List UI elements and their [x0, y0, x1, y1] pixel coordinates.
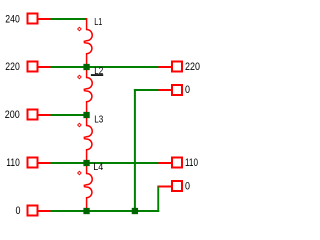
terminal left 200 — [28, 110, 38, 120]
wire 110 terminal to node C — [51, 162, 87, 164]
pin stub left 220 — [39, 66, 51, 68]
terminal 240 — [28, 14, 38, 24]
svg-text:110: 110 — [185, 157, 198, 169]
terminal left 110 — [28, 158, 38, 168]
svg-text:L3: L3 — [94, 113, 103, 125]
junction riser 1 on bottom wire — [132, 208, 138, 214]
terminal left 0 — [28, 206, 38, 216]
inductor L4 — [84, 163, 92, 210]
svg-text:240: 240 — [5, 13, 20, 25]
terminal right 0 upper — [172, 85, 182, 95]
svg-text:0: 0 — [185, 84, 190, 96]
pin stub right 220 — [159, 66, 172, 68]
junction node B (200 tap) — [83, 112, 89, 118]
svg-text:200: 200 — [5, 109, 20, 121]
inductor L1 — [84, 18, 92, 67]
polarity dot L4 — [78, 171, 82, 175]
wire 200 terminal to node B — [51, 114, 87, 116]
svg-text:220: 220 — [5, 61, 20, 73]
terminal right 110 — [172, 158, 182, 168]
inductor L3 — [84, 115, 92, 163]
wire right 0 upper horizontal — [134, 89, 159, 91]
label L2 underline — [91, 74, 103, 76]
wire 0 terminal to node D — [51, 210, 87, 212]
svg-text:220: 220 — [185, 61, 200, 73]
pin stub right 0 upper — [159, 89, 172, 91]
junction node D (0 bottom) — [83, 208, 89, 214]
wire vertical riser 2 — [157, 186, 159, 213]
terminal right 220 — [172, 62, 182, 72]
wire node A to right 220 terminal — [87, 66, 159, 68]
inductor L2 — [84, 67, 92, 115]
polarity dot L3 — [78, 123, 82, 127]
junction node C (110 tap) — [83, 160, 89, 166]
polarity dot L2 — [78, 75, 82, 79]
svg-text:0: 0 — [185, 180, 190, 192]
pin stub right 0 lower — [159, 186, 172, 188]
terminal right 0 lower — [172, 181, 182, 191]
wire vertical riser 1 — [134, 89, 136, 212]
wire node C to right 110 terminal — [87, 162, 159, 164]
pin stub right 110 — [159, 162, 172, 164]
wire 240 terminal to L1 top — [51, 18, 87, 20]
wire node D to riser corner — [87, 210, 160, 212]
svg-text:L4: L4 — [93, 161, 103, 173]
terminal left 220 — [28, 62, 38, 72]
svg-text:L1: L1 — [94, 16, 102, 28]
junction node A (220 tap) — [83, 64, 89, 70]
svg-text:110: 110 — [6, 157, 20, 169]
pin stub left 0 — [39, 210, 51, 212]
polarity dot L1 — [78, 27, 82, 31]
wire 220 terminal to node A — [51, 66, 87, 68]
pin stub left 240 — [39, 18, 51, 20]
pin stub left 110 — [39, 162, 51, 164]
pin stub left 200 — [39, 114, 51, 116]
svg-text:0: 0 — [16, 205, 21, 217]
